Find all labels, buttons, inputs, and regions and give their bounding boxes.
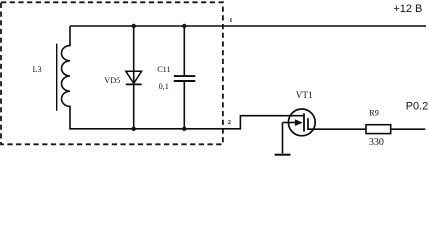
svg-text:VD5: VD5 [104, 76, 120, 85]
svg-text:L3: L3 [33, 65, 42, 74]
svg-text:VT1: VT1 [296, 90, 313, 100]
svg-text:330: 330 [369, 137, 384, 148]
svg-text:+12 В: +12 В [393, 3, 422, 15]
svg-text:0,1: 0,1 [159, 82, 169, 91]
svg-text:1: 1 [229, 17, 232, 24]
svg-text:2: 2 [228, 119, 231, 126]
svg-text:R9: R9 [369, 109, 379, 118]
svg-text:C11: C11 [157, 65, 170, 74]
svg-text:P0.2: P0.2 [406, 100, 428, 112]
